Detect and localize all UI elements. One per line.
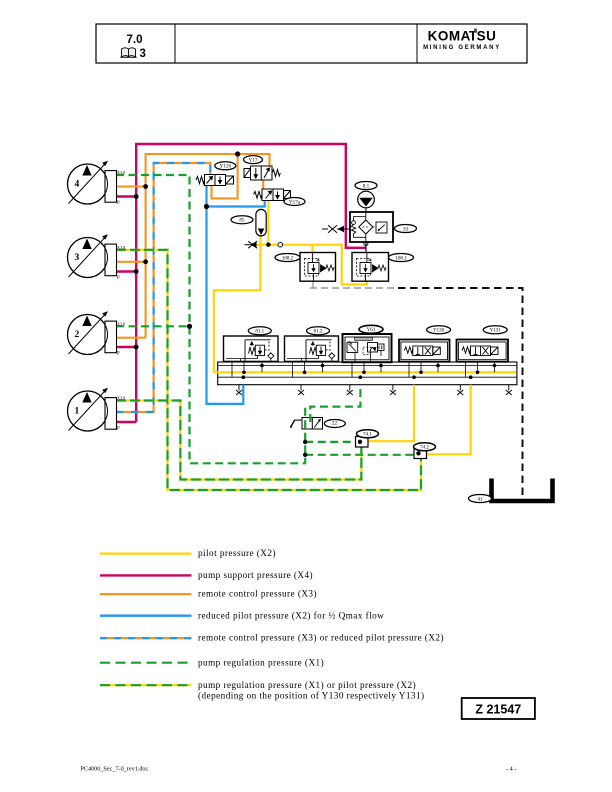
svg-text:7.0: 7.0 <box>127 34 143 46</box>
svg-text:X3.8: X3.8 <box>117 396 125 401</box>
svg-text:MINING GERMANY: MINING GERMANY <box>423 45 501 51</box>
svg-text:81.2: 81.2 <box>314 330 323 335</box>
svg-text:1: 1 <box>75 407 80 417</box>
svg-text:X3.8: X3.8 <box>117 321 125 326</box>
svg-text:KOMATSU: KOMATSU <box>428 29 497 44</box>
svg-text:(depending on the position of: (depending on the position of Y130 respe… <box>198 690 425 700</box>
svg-text:reduced pilot pressure (X2) fo: reduced pilot pressure (X2) for ½ Qmax f… <box>198 610 384 620</box>
svg-text:Y131: Y131 <box>490 329 502 334</box>
svg-text:4: 4 <box>75 180 80 190</box>
svg-text:P: P <box>117 201 120 206</box>
svg-text:pump support pressure (X4): pump support pressure (X4) <box>198 570 313 580</box>
svg-text:2: 2 <box>75 330 80 340</box>
svg-text:PC4000_Sec_7-0_rev1.doc: PC4000_Sec_7-0_rev1.doc <box>80 766 148 773</box>
svg-text:pilot pressure (X2): pilot pressure (X2) <box>198 548 276 558</box>
svg-text:P: P <box>117 352 120 357</box>
svg-text:X3.8: X3.8 <box>117 170 125 175</box>
svg-text:22: 22 <box>332 421 338 427</box>
svg-text:33: 33 <box>403 226 409 232</box>
svg-text:pump regulation pressure (X1): pump regulation pressure (X1) <box>198 657 324 667</box>
svg-text:Y61: Y61 <box>367 327 376 333</box>
svg-text:81.1: 81.1 <box>255 330 264 335</box>
svg-text:3: 3 <box>140 48 146 60</box>
svg-text:45: 45 <box>316 258 320 263</box>
svg-text:74.2: 74.2 <box>420 446 429 451</box>
svg-text:74.1: 74.1 <box>363 433 372 438</box>
svg-text:46: 46 <box>368 258 372 263</box>
svg-text:X3.8: X3.8 <box>117 245 125 250</box>
svg-text:remote control pressure (X3): remote control pressure (X3) <box>198 589 317 599</box>
svg-text:108.1: 108.1 <box>395 256 407 261</box>
svg-text:Z 21547: Z 21547 <box>475 703 521 717</box>
svg-text:Y130: Y130 <box>433 329 445 334</box>
svg-text:108.2: 108.2 <box>282 256 294 261</box>
svg-text:pump regulation pressure (X1): pump regulation pressure (X1) or pilot p… <box>198 680 416 690</box>
svg-text:P: P <box>117 427 120 432</box>
svg-text:P: P <box>117 276 120 281</box>
svg-text:3: 3 <box>75 253 80 263</box>
svg-text:remote control pressure (X3): remote control pressure (X3) or reduced … <box>198 633 444 643</box>
svg-text:41: 41 <box>477 496 483 502</box>
svg-text:85: 85 <box>239 218 245 224</box>
svg-text:Y126: Y126 <box>220 164 232 170</box>
svg-text:- 4 -: - 4 - <box>506 766 516 773</box>
svg-text:Y17: Y17 <box>249 158 258 164</box>
svg-text:8.1: 8.1 <box>363 183 370 189</box>
svg-text:Y17a: Y17a <box>289 199 301 205</box>
